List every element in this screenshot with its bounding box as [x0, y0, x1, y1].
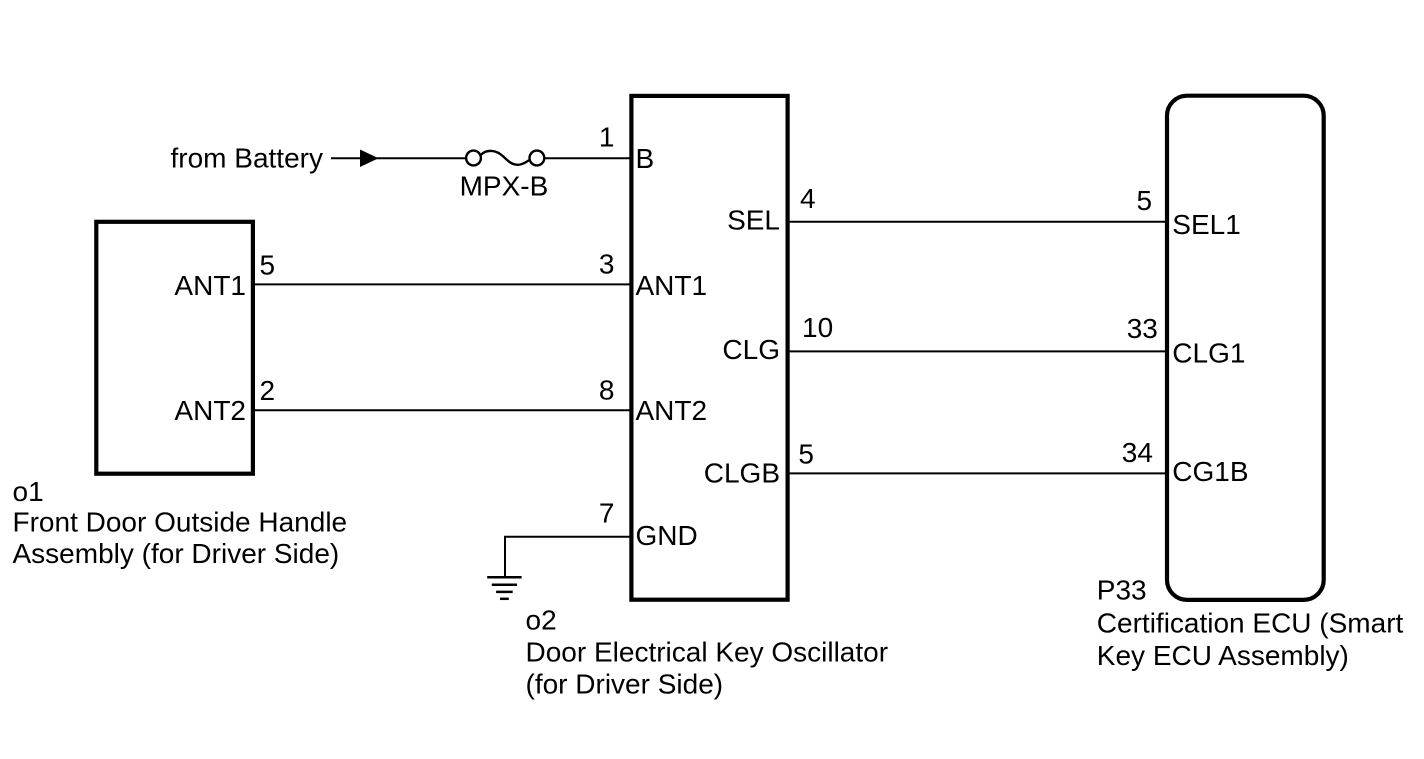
svg-text:GND: GND: [636, 520, 698, 551]
component o2 box: Door Electrical Key Oscillator: [631, 96, 787, 600]
wire CLGB: o2 pin 5 to P33 pin 34: [789, 472, 1166, 474]
wire CLG: o2 pin 10 to P33 pin 33: [789, 350, 1166, 352]
svg-text:5: 5: [260, 249, 276, 280]
component o1 box: Front Door Outside Handle Assembly: [96, 222, 253, 474]
wire from Battery to fuse: [331, 157, 466, 159]
svg-text:CG1B: CG1B: [1172, 456, 1248, 487]
svg-text:CLGB: CLGB: [704, 458, 780, 489]
svg-text:Door Electrical Key Oscillator: Door Electrical Key Oscillator: [526, 636, 889, 667]
ground symbol: [487, 577, 521, 599]
svg-text:4: 4: [800, 183, 816, 214]
component P33 box: Certification ECU (rounded): [1167, 96, 1324, 600]
wire ANT2: o1 pin 2 to o2 pin 8: [253, 409, 632, 411]
svg-text:10: 10: [802, 312, 833, 343]
svg-text:Certification ECU (Smart: Certification ECU (Smart: [1097, 607, 1404, 638]
svg-text:1: 1: [599, 121, 615, 152]
svg-text:Front Door Outside Handle: Front Door Outside Handle: [13, 507, 348, 538]
svg-text:(for Driver Side): (for Driver Side): [526, 668, 724, 699]
svg-text:CLG1: CLG1: [1172, 338, 1245, 369]
fuse MPX-B left terminal circle: [466, 151, 481, 166]
wire GND: o2 pin 7 to ground: [505, 537, 632, 577]
fuse MPX-B element wave: [481, 151, 530, 165]
svg-text:ANT2: ANT2: [174, 395, 246, 426]
svg-text:33: 33: [1127, 313, 1158, 344]
svg-text:ANT2: ANT2: [636, 395, 708, 426]
svg-text:34: 34: [1122, 437, 1153, 468]
svg-text:2: 2: [260, 375, 276, 406]
svg-text:5: 5: [1137, 185, 1153, 216]
svg-text:SEL: SEL: [727, 205, 780, 236]
svg-text:3: 3: [599, 249, 615, 280]
svg-text:8: 8: [599, 374, 615, 405]
svg-text:ANT1: ANT1: [174, 270, 246, 301]
svg-text:o1: o1: [13, 476, 44, 507]
wire fuse to pin 1 B: [544, 157, 631, 159]
svg-text:SEL1: SEL1: [1172, 209, 1241, 240]
wire SEL: o2 pin 4 to P33 pin 5: [789, 221, 1166, 223]
svg-text:Key ECU Assembly): Key ECU Assembly): [1097, 640, 1349, 671]
svg-text:CLG: CLG: [722, 334, 780, 365]
wire ANT1: o1 pin 5 to o2 pin 3: [253, 283, 632, 285]
svg-text:from Battery: from Battery: [171, 143, 323, 174]
svg-text:ANT1: ANT1: [636, 270, 708, 301]
svg-text:Assembly (for Driver Side): Assembly (for Driver Side): [13, 538, 340, 569]
svg-text:P33: P33: [1097, 575, 1147, 606]
svg-text:o2: o2: [526, 604, 557, 635]
svg-text:7: 7: [599, 497, 615, 528]
svg-text:5: 5: [798, 439, 814, 470]
fuse MPX-B right terminal circle: [530, 151, 545, 166]
arrowhead on battery wire: [360, 150, 379, 168]
svg-text:B: B: [636, 143, 655, 174]
svg-text:MPX-B: MPX-B: [460, 171, 549, 202]
